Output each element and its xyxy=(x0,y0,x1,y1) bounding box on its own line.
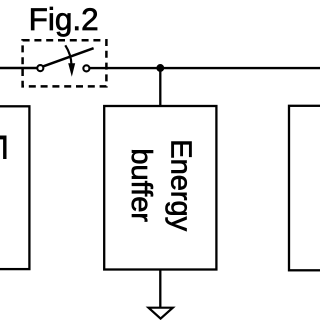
block U1 (left, partially visible) xyxy=(0,106,29,269)
wire: bus to Energy buffer top xyxy=(159,68,161,107)
node A junction dot on bus xyxy=(156,64,164,72)
label fragment in left block (rotated letter) xyxy=(0,136,7,140)
switch S1 lever (open) xyxy=(43,48,94,66)
svg-text:Energy: Energy xyxy=(165,139,197,231)
wire: Energy buffer bottom to ground xyxy=(159,269,161,307)
switch S1 actuation arrow xyxy=(65,45,71,64)
ground symbol xyxy=(149,308,173,319)
wire: main bus from switch to right edge xyxy=(90,67,320,69)
switch S1 right contact xyxy=(83,65,89,71)
svg-text:Fig.2: Fig.2 xyxy=(29,1,99,37)
svg-text:buffer: buffer xyxy=(125,148,157,222)
block U3 (right, partially visible) xyxy=(289,106,320,270)
wire: left bus segment into switch xyxy=(0,67,37,69)
switch S1 left contact xyxy=(37,65,43,71)
dashed enclosure box around switch S1 xyxy=(23,40,107,86)
block U2 Energy buffer xyxy=(104,106,216,270)
label Energy buffer (rotated) xyxy=(125,139,196,231)
